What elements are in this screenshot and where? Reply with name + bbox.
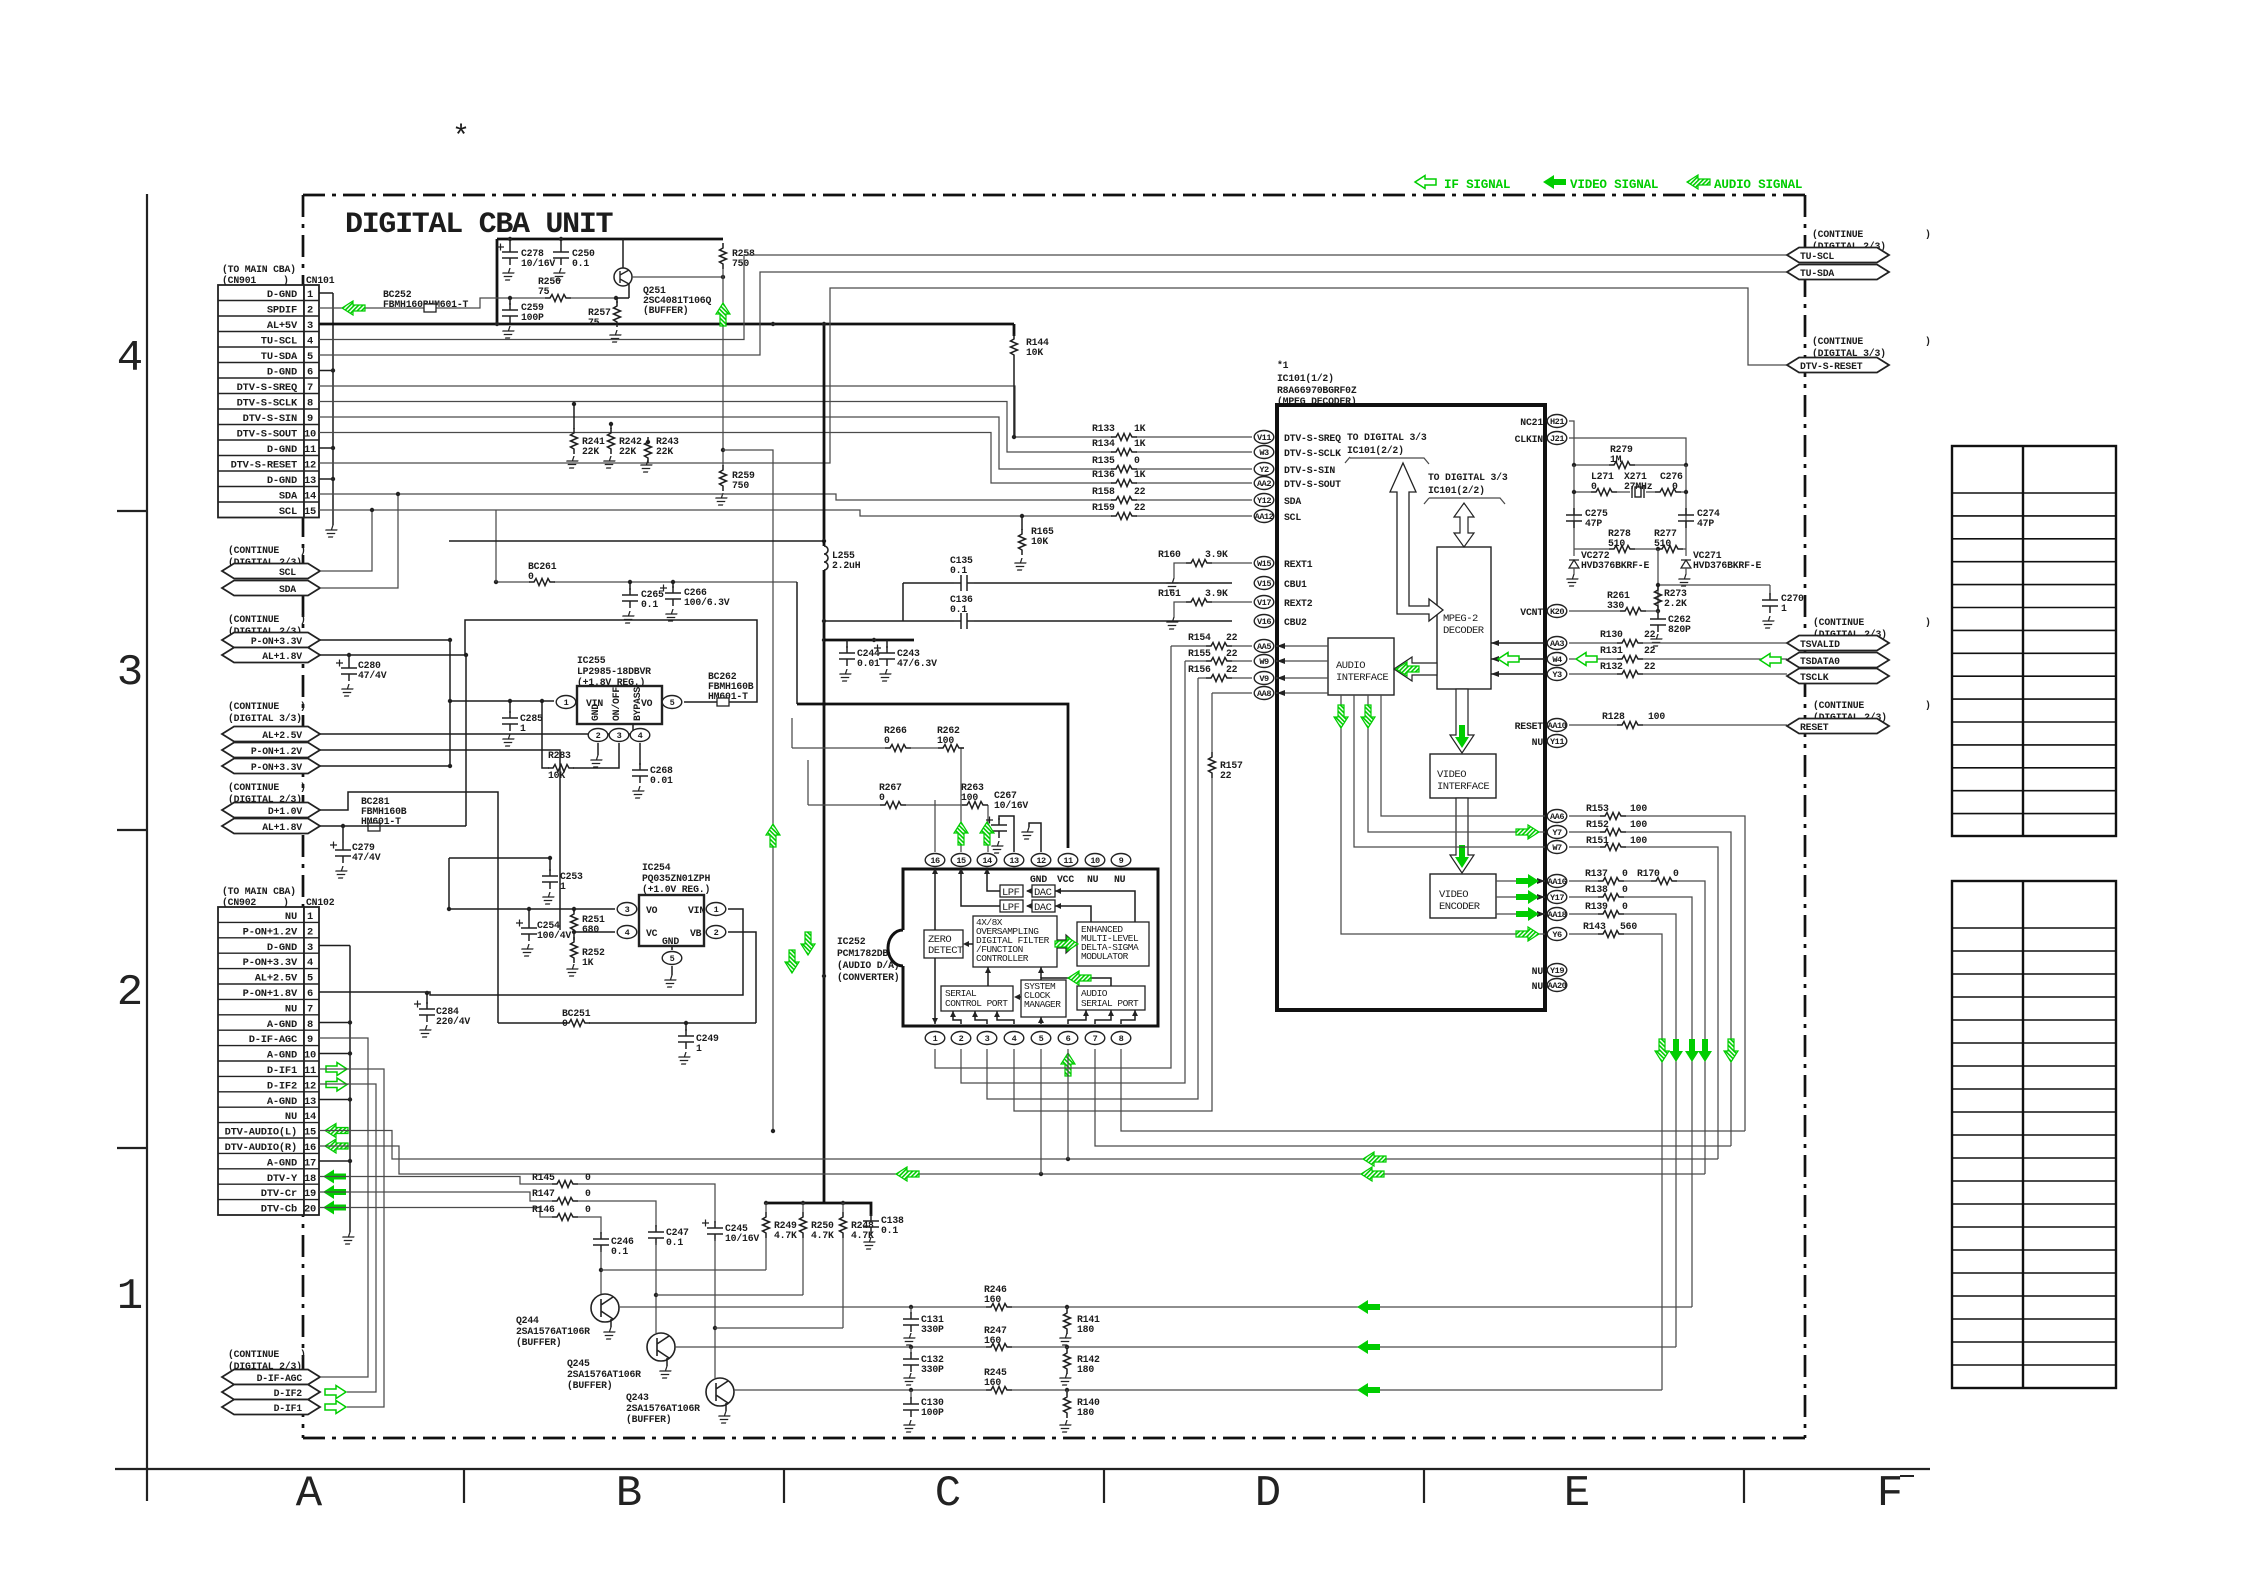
svg-text:R136: R136 [1092,469,1115,480]
svg-text:R155: R155 [1188,648,1211,659]
svg-text:R161: R161 [1158,588,1181,599]
resistor R143 [1569,934,1662,1390]
connector CN101 body [218,285,319,518]
svg-text:5: 5 [307,351,313,363]
pull-up rail [766,1203,871,1216]
pin 4 [630,729,650,742]
pin [1547,841,1567,854]
svg-text:W15: W15 [1257,559,1271,569]
svg-text:Y3: Y3 [1552,670,1562,680]
pin 10 [1085,854,1105,867]
svg-text:A-GND: A-GND [267,1157,297,1169]
svg-text:R132: R132 [1600,661,1623,672]
wire [666,1358,668,1366]
svg-text:AA16: AA16 [1548,877,1567,887]
svg-text:100P: 100P [521,312,544,323]
svg-text:16: 16 [930,856,940,866]
resistor [880,802,906,809]
node D+1.0V tag [222,803,320,818]
pin16 stub [934,800,936,852]
signal arrow [1055,937,1078,951]
svg-text:12: 12 [304,1080,316,1092]
svg-text:330P: 330P [921,1364,944,1375]
resistor [1609,462,1635,469]
svg-text:): ) [300,545,306,556]
svg-text:IC254: IC254 [642,862,671,873]
svg-text:DTV-S-SCLK: DTV-S-SCLK [1284,448,1341,459]
svg-text:NU: NU [1532,966,1544,977]
pin 3 [617,903,637,916]
svg-text:0.01: 0.01 [857,658,880,669]
svg-text:TU-SCL: TU-SCL [261,336,297,348]
node TSDATA0 tag [1787,653,1889,668]
svg-text:14: 14 [982,856,992,866]
resistor [571,428,578,454]
wire AL+5V vertical bus x773 [823,324,826,540]
signal arrow [1760,654,1781,667]
svg-text:12: 12 [304,460,316,472]
svg-text:680: 680 [582,924,599,935]
svg-text:VIN: VIN [688,905,705,916]
junction [572,930,576,934]
svg-text:ENCODER: ENCODER [1439,901,1481,913]
svg-text:100/4V: 100/4V [537,930,571,941]
legend AUDIO SIGNAL [1687,175,1710,189]
resistor R140 [1066,1390,1068,1393]
wire SPDIF from CN101 pin2 [319,298,616,308]
svg-text:SCL: SCL [279,567,296,578]
svg-text:15: 15 [956,856,966,866]
node AL+1.8V tag [222,819,320,834]
svg-text:MANAGER: MANAGER [1024,999,1061,1010]
wires audio interface down-feeds [1341,695,1545,934]
svg-text:0.1: 0.1 [950,604,967,615]
svg-text:V15: V15 [1257,579,1271,589]
ground [340,1232,356,1244]
transistor Q244 [591,1294,619,1322]
ground [1164,578,1180,590]
wire AL+1.8V [320,654,466,656]
svg-text:GND: GND [1030,874,1047,885]
svg-text:22: 22 [1226,632,1238,643]
svg-text:12: 12 [1036,856,1046,866]
resistor R160 REXT1 [1174,563,1252,578]
wire [1424,498,1505,504]
svg-text:1K: 1K [1134,423,1146,434]
svg-text:NU: NU [285,1111,297,1123]
pin [1254,477,1274,490]
capacitor C284 [425,991,429,995]
svg-text:VO: VO [646,905,658,916]
svg-text:0: 0 [1622,901,1628,912]
signal arrow [1685,1039,1699,1062]
pin [1254,672,1274,685]
svg-text:R134: R134 [1092,438,1115,449]
junction [614,296,618,300]
svg-text:NU: NU [1532,737,1544,748]
svg-text:IC252: IC252 [837,936,866,947]
svg-text:7: 7 [1093,1034,1098,1044]
signal arrow [1357,1300,1380,1314]
table lower [1952,881,2116,1388]
capacitor C244 [846,640,848,648]
inner block AUDIO SERIAL PORT [1077,986,1145,1010]
svg-text:(+1.0V REG.): (+1.0V REG.) [642,884,710,895]
svg-text:1: 1 [933,1034,938,1044]
svg-text:75: 75 [588,317,600,328]
resistor R252 [571,937,578,963]
svg-text:0: 0 [585,1172,591,1183]
svg-text:(TO MAIN CBA): (TO MAIN CBA) [222,264,296,275]
svg-text:2: 2 [307,926,313,938]
frame left vertical line [146,194,148,1501]
svg-text:INTERFACE: INTERFACE [1336,672,1388,684]
node TU-SDA tag [1787,265,1889,280]
capacitor [986,817,1007,839]
wire RESET with R128 [1569,724,1787,726]
pin [1254,655,1274,668]
wire [1067,1049,1069,1159]
wire DTV-Y from CN102 row18 [319,1177,715,1224]
svg-text:D+1.0V: D+1.0V [268,806,302,817]
svg-text:CLKIN: CLKIN [1515,434,1544,445]
resistor R257 [616,298,618,303]
svg-text:27MHz: 27MHz [1624,481,1653,492]
resistor [986,1304,1012,1311]
svg-text:(CONTINUE: (CONTINUE [228,614,279,625]
svg-text:0: 0 [884,735,890,746]
signal arrow [325,1401,346,1414]
pin [1254,615,1274,628]
node RESET tag [1787,719,1889,734]
junction [872,638,876,642]
svg-text:10K: 10K [1031,536,1048,547]
svg-text:2: 2 [959,1034,964,1044]
svg-text:180: 180 [1077,1364,1094,1375]
wire TSCLK with R132 [1569,673,1787,675]
capacitor C132 [910,1347,912,1354]
svg-text:6: 6 [307,367,313,379]
transistor Q251 [622,239,624,268]
wire [961,661,1185,1083]
varactor VC272 [1573,549,1575,556]
svg-text:160: 160 [984,1294,1001,1305]
wire VCNT with R261 [1569,610,1658,612]
wire [1040,1049,1042,1174]
junction [909,1388,913,1392]
svg-text:REXT2: REXT2 [1284,598,1313,609]
resistor R134 [1111,449,1137,456]
svg-text:22K: 22K [619,446,636,457]
svg-text:F: F [1877,1469,1903,1519]
pin 16 [925,854,945,867]
svg-text:Q244: Q244 [516,1315,539,1326]
resistor R151 [1569,847,1718,1159]
resistor R158 [1111,497,1137,504]
svg-text:AA20: AA20 [1548,981,1567,991]
svg-text:V16: V16 [1257,617,1271,627]
svg-text:DTV-AUDIO(R): DTV-AUDIO(R) [225,1142,297,1154]
junction branches to pull-ups [599,1268,603,1272]
svg-text:): ) [300,782,306,793]
node D-IF2 tag [222,1385,320,1400]
pin 2 [951,1032,971,1045]
wire DTV-S-SCLK [319,402,1252,453]
svg-text:AA3: AA3 [1550,639,1564,649]
svg-text:SCL: SCL [1284,512,1301,523]
svg-text:75: 75 [538,286,550,297]
svg-text:TSCLK: TSCLK [1800,672,1829,683]
resistor R279 rail [1574,464,1686,466]
svg-text:2: 2 [596,731,601,741]
wire audio verticals down to IC252 pins1-4 [935,646,1171,1068]
svg-text:18: 18 [304,1173,316,1185]
resistor R251 [573,909,575,912]
inner block LPF1 [1000,885,1023,897]
svg-text:R8A66970BGRF0Z: R8A66970BGRF0Z [1277,385,1357,396]
svg-text:IC101(1/2): IC101(1/2) [1277,373,1334,384]
svg-text:D: D [1255,1469,1281,1519]
junction [448,638,452,642]
wire zero detect to pin16/pin1 [934,872,936,1024]
svg-text:47/4V: 47/4V [352,852,381,863]
svg-text:P-ON+3.3V: P-ON+3.3V [243,957,298,969]
svg-text:1K: 1K [1134,438,1146,449]
resistor R250 [802,1203,804,1295]
svg-text:6: 6 [307,988,313,1000]
svg-text:D-GND: D-GND [267,942,297,954]
resistor R137 R170 [1569,881,1705,1174]
table upper [1952,446,2116,836]
wire AL+1.8V through BC281 [320,655,466,826]
svg-text:DTV-Cb: DTV-Cb [261,1204,297,1216]
svg-text:22: 22 [1644,629,1656,640]
resistor R138 [1569,897,1692,1307]
svg-text:0: 0 [528,571,534,582]
signal arrow [342,301,365,315]
pin 4 [617,926,637,939]
svg-text:D-GND: D-GND [267,367,297,379]
signal arrow [323,1185,346,1199]
svg-text:VIDEO: VIDEO [1437,769,1466,781]
svg-text:VCNT: VCNT [1520,607,1543,618]
svg-text:Y17: Y17 [1550,893,1564,903]
wire DTV-Cr from CN102 row19 [319,1192,656,1227]
wire DTV-AUDIO(L) [319,1131,1718,1160]
svg-text:V11: V11 [1257,433,1271,443]
svg-text:D-GND: D-GND [267,289,297,301]
wire [549,858,551,871]
wires filter bottom arrows [988,967,1111,986]
pin [1254,494,1274,507]
svg-text:INTERFACE: INTERFACE [1437,781,1489,793]
svg-text:A-GND: A-GND [267,1096,297,1108]
svg-text:LPF: LPF [1002,902,1020,914]
IC101 left pins [1254,431,1274,444]
frame bottom horizontal line [115,1468,1930,1470]
junction [559,237,563,241]
svg-text:LPF: LPF [1002,887,1020,899]
svg-text:A: A [296,1469,323,1519]
svg-text:(CONTINUE: (CONTINUE [228,545,279,556]
pin 11 [1058,854,1078,867]
resistor [608,428,615,454]
wire [1685,568,1687,574]
svg-text:H21: H21 [1550,417,1564,427]
resistor R161 REXT2 [1174,602,1252,617]
svg-text:AA5: AA5 [1257,642,1271,652]
signal arrow [1361,705,1375,728]
svg-text:AUDIO: AUDIO [1336,660,1365,672]
wire P-ON+1.2V riser down [320,750,560,930]
svg-text:RESET: RESET [1515,721,1544,732]
svg-text:22: 22 [1220,770,1232,781]
svg-text:SPDIF: SPDIF [267,305,297,317]
resistor [885,745,911,752]
svg-text:2: 2 [117,968,143,1018]
green arrow below pin6 [1061,1053,1075,1076]
wire [807,760,809,805]
svg-text:8: 8 [307,1019,313,1031]
svg-text:IC255: IC255 [577,655,606,666]
capacitor C254 [516,920,537,942]
inner block SYSTEM CLOCK MANAGER [1021,980,1066,1017]
wires LPF to pins 14,15 [961,872,1000,906]
svg-text:10/16V: 10/16V [521,258,555,269]
svg-text:8: 8 [307,398,313,410]
svg-text:2.2K: 2.2K [1664,598,1687,609]
svg-text:R128: R128 [1602,711,1625,722]
svg-text:V17: V17 [1257,598,1271,608]
riser x450 [449,640,451,766]
wire pin5 to clock manager [1040,1017,1042,1024]
svg-text:): ) [300,701,306,712]
pin 8 [1111,1032,1131,1045]
svg-text:6: 6 [1066,1034,1071,1044]
svg-text:R153: R153 [1586,803,1609,814]
pin [1547,875,1567,888]
resistor R256 [545,295,571,302]
resistor [986,1387,1012,1394]
pin 4 [1004,1032,1024,1045]
junction [331,368,335,372]
node D-IF-AGC tag [222,1370,320,1385]
svg-text:SCL: SCL [279,506,297,518]
wire [1014,693,1212,1111]
svg-text:R160: R160 [1158,549,1181,560]
svg-text:SDA: SDA [1284,496,1301,507]
svg-text:R143: R143 [1583,921,1606,932]
inner block VIDEO ENCODER [1430,874,1496,918]
resistor R135 [1111,466,1137,473]
wire [714,1239,716,1378]
resistor [552,1214,578,1221]
wire BC261 right end down to VCC rail [796,582,798,704]
node to R273/C270 [1658,549,1770,598]
resistor R259 [720,465,727,491]
resistor R258 [720,243,727,269]
pin [1254,446,1274,459]
wires pins 6,7,8 to audio serial port [1068,1010,1135,1024]
svg-text:VC: VC [646,928,658,939]
svg-text:5: 5 [670,698,675,708]
resistor R243 [646,440,650,444]
svg-text:DTV-S-SREQ: DTV-S-SREQ [1284,433,1341,444]
junction [495,322,499,326]
svg-text:): ) [1925,617,1931,628]
wire Q245 collector line [675,1346,1676,1348]
svg-text:AL+2.5V: AL+2.5V [262,730,302,741]
green arrow on AL+5V bus [766,824,780,847]
junction [508,237,512,241]
inner block LPF2 [1000,900,1023,912]
capacitor C259 [509,298,511,305]
svg-text:AA2: AA2 [1257,479,1271,489]
capacitor C246 [593,1232,609,1252]
node SCL tag [222,564,320,579]
signal arrow [1516,890,1539,904]
svg-text:GND: GND [590,704,601,721]
svg-text:22K: 22K [582,446,599,457]
junction [1656,583,1660,587]
svg-text:SERIAL PORT: SERIAL PORT [1081,998,1139,1009]
svg-text:47P: 47P [1697,518,1714,529]
wires video encoder outputs [1496,881,1545,914]
wire [542,701,549,768]
pin [1254,577,1274,590]
svg-text:0: 0 [1672,481,1678,492]
svg-text:13: 13 [304,1096,316,1108]
capacitor [414,1001,435,1023]
svg-text:NU: NU [1087,874,1099,885]
wire D+1.0V up-over [320,792,498,1023]
signal arrow [896,1167,919,1181]
wire SCL row15 [319,510,1252,516]
svg-text:7: 7 [307,382,313,394]
svg-text:510: 510 [1608,538,1625,549]
svg-text:10K: 10K [1026,347,1043,358]
svg-text:D-GND: D-GND [267,475,297,487]
svg-text:4: 4 [638,731,643,741]
svg-text:3: 3 [617,731,622,741]
wire SDA tag to row14 [320,494,398,588]
svg-text:330P: 330P [921,1324,944,1335]
svg-text:0: 0 [1591,481,1597,492]
svg-text:E: E [1564,1469,1590,1519]
pin [1547,605,1567,618]
junction [396,492,400,496]
wire VO node line [449,908,615,910]
svg-text:22: 22 [1134,502,1146,513]
svg-text:P-ON+3.3V: P-ON+3.3V [251,762,302,773]
arrow filter->zerodetect [965,943,973,945]
svg-text:R131: R131 [1600,645,1623,656]
green arrows on audio buses [1363,1152,1386,1166]
wire DTV-Cb from CN102 row20 [319,1208,601,1235]
svg-text:7: 7 [307,1003,313,1015]
resistor BC251 [564,1020,590,1027]
R278/R277 rail [1574,548,1686,550]
wire audio bus SYSCLK [1121,1049,1745,1131]
resistor R249 [765,1203,767,1270]
junction [909,1345,913,1349]
node DTV-S-RESET tag [1787,358,1889,373]
inner block MPEG-2 DECODER [1437,547,1491,689]
svg-text:750: 750 [732,258,749,269]
svg-text:AA12: AA12 [1255,512,1274,522]
svg-text:NC21: NC21 [1520,417,1543,428]
pin [1254,463,1274,476]
